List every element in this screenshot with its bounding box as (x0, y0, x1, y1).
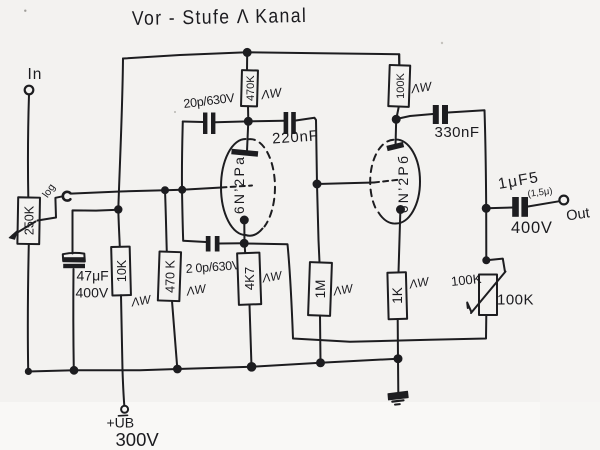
wire output node to C6 (486, 207, 513, 210)
svg-text:In: In (28, 66, 43, 83)
potentiometer R9 wiper diagonal (471, 272, 506, 314)
node UB terminal (121, 406, 128, 413)
node pot top junction (483, 257, 489, 263)
wire V2 cathode lead (399, 213, 401, 273)
node ground junction R5 (248, 363, 256, 371)
wire V1 anode lead (247, 122, 248, 152)
capacitor C2 20p/630V plate 1 (206, 236, 211, 252)
wire C6 to Out terminal (528, 201, 560, 206)
capacitor C5 330nF plate 2 (442, 105, 448, 124)
wire plate node to C4 (249, 120, 284, 123)
wire vertical cap chain (182, 122, 206, 243)
wire ground rail (28, 359, 398, 372)
wire pot bottom to ground rail (27, 244, 30, 371)
tube V1 grid dashed (222, 186, 253, 188)
svg-text:6N’2Pб: 6N’2Pб (395, 154, 411, 213)
wire C4 to grid V2 (296, 118, 317, 184)
resistor R4 470K body (241, 70, 258, 106)
capacitor C4 220nF plate 1 (284, 112, 289, 134)
potentiometer R1 arrow (13, 222, 36, 236)
resistor R3 10K body (111, 247, 131, 296)
wire R3 to UB terminal (121, 295, 124, 405)
paper speck 1 (174, 111, 176, 113)
resistor R7 1K body (387, 272, 407, 319)
tube V2 envelope dashed arc (370, 140, 393, 211)
node top rail left vertical (118, 59, 123, 247)
wire grid line tube V1 (71, 188, 222, 194)
wire C1 to ground rail (72, 269, 74, 370)
wire top supply rail (123, 52, 399, 65)
wire grid leak to R2 (165, 190, 167, 252)
svg-text:470 K: 470 K (164, 260, 178, 293)
wire 100K top feed (398, 54, 400, 65)
node output junction (483, 205, 490, 212)
node plate V2 junction (393, 116, 400, 123)
wire R7 to ground (397, 319, 400, 392)
ground symbol strokes (392, 400, 403, 401)
node grid junction A (162, 187, 168, 193)
svg-text:330nF: 330nF (435, 124, 480, 141)
tube V2 cathode (397, 206, 404, 213)
wire 470K top feed (246, 53, 248, 71)
wire supply to C1 (73, 210, 119, 254)
wire output node down to pot R9 (485, 209, 487, 261)
svg-text:250K: 250K (23, 205, 37, 235)
connector hook (63, 192, 71, 201)
wire C3 to grid chain (183, 121, 203, 124)
wire R8 to plate node (396, 107, 399, 120)
potentiometer R9 wiper tick (467, 303, 471, 312)
resistor R8 100K body (388, 65, 410, 107)
node grid V2 junction (314, 181, 321, 188)
tube V2 envelope solid arc (379, 140, 421, 224)
tube V2 grid dashed (374, 180, 398, 183)
node ground junction C1 (71, 367, 78, 374)
node ground junction R6 (317, 359, 324, 366)
tube V1 anode (232, 152, 259, 155)
svg-text:47μF: 47μF (77, 268, 109, 284)
capacitor C1 47uF plate 2 (63, 264, 85, 268)
capacitor C5 330nF plate 1 (433, 105, 439, 124)
paper speck 2 (441, 42, 443, 44)
svg-text:100K: 100K (395, 72, 407, 98)
svg-text:100K: 100K (497, 292, 534, 309)
capacitor C2 20p/630V plate 2 (215, 236, 220, 252)
svg-text:10K: 10K (115, 259, 129, 282)
node ground rail left end (26, 369, 31, 374)
node grid junction B (179, 187, 185, 193)
node Out terminal (559, 196, 568, 205)
wire plate V2 node to C5 (396, 114, 432, 119)
wire C2 to cathode node (220, 242, 245, 244)
svg-text:6N’2Pa: 6N’2Pa (231, 155, 247, 214)
svg-text:470K: 470K (245, 75, 257, 101)
wire grid line tube V2 (317, 183, 374, 185)
svg-text:1M: 1M (313, 280, 328, 299)
resistor R2 470K body (158, 251, 181, 301)
wire In to pot (28, 95, 29, 198)
capacitor C1 47uF plate 1 (63, 253, 85, 262)
svg-text:Vor - Stufe Λ Kanal: Vor - Stufe Λ Kanal (132, 4, 308, 29)
capacitor C6 1uF5 plate 2 (521, 197, 528, 217)
tube V2 anode (387, 145, 404, 149)
tube V1 cathode (241, 217, 248, 224)
paper speck 0 (24, 10, 26, 12)
resistor R5 4K7 body (237, 253, 261, 305)
tube V1 envelope dashed arc (249, 139, 275, 226)
capacitor C4 220nF plate 2 (291, 112, 296, 134)
potentiometer R1 250K body (17, 197, 40, 244)
wire R5 to ground rail (250, 305, 252, 367)
capacitor C3 20p/630V plate 1 (203, 113, 207, 135)
node supply junction (115, 206, 121, 212)
node ground junction R7 (395, 355, 402, 362)
wire R6 to ground rail (319, 316, 322, 363)
svg-text:4K7: 4K7 (242, 267, 257, 290)
wire feedback cathode to pot (244, 244, 486, 342)
svg-text:400V: 400V (76, 285, 109, 301)
node ground junction R2 (174, 366, 181, 373)
wire C5 to output branch (448, 110, 486, 208)
node plate V1 junction (245, 118, 252, 125)
svg-text:400V: 400V (511, 219, 553, 237)
tube V1 envelope solid arc (221, 139, 263, 236)
svg-text:300V: 300V (116, 429, 160, 450)
wire R4 to plate node (247, 106, 249, 121)
label UB overline (119, 414, 128, 417)
resistor R6 1M body (308, 262, 332, 316)
node top rail junction (244, 49, 251, 56)
wire R2 to ground rail (172, 301, 177, 369)
svg-text:100K: 100K (450, 271, 482, 289)
node cathode V1 junction (241, 240, 248, 247)
potentiometer R9 100K body (479, 275, 497, 316)
wire plate node to C3 (215, 120, 248, 123)
wire pot wiper (38, 196, 64, 220)
wire V1 cathode lead (243, 223, 246, 253)
svg-text:1K: 1K (390, 287, 405, 304)
node In terminal (25, 86, 34, 95)
svg-text:220nF: 220nF (272, 127, 320, 147)
wire V2 anode lead (395, 120, 398, 147)
svg-text:Out: Out (565, 205, 590, 224)
capacitor C6 1uF5 plate 1 (512, 197, 519, 217)
wire grid V2 to R6 (317, 184, 320, 262)
capacitor C3 20p/630V plate 2 (211, 113, 215, 135)
ground symbol bar (388, 391, 408, 400)
wire pot R9 top loop (487, 259, 506, 272)
